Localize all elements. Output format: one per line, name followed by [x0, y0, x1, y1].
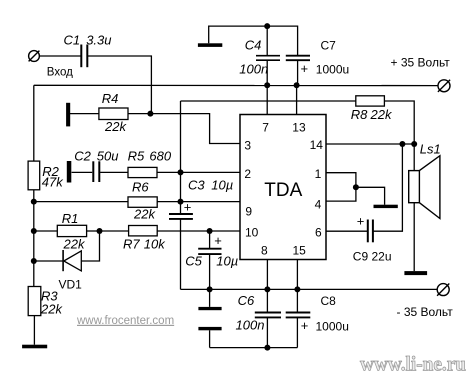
wire feedback vertical (R8 to pin2/pin9/C3) — [180, 101, 182, 214]
capacitor C8 — [286, 313, 311, 318]
capacitor C1 — [81, 45, 87, 68]
wire C7 bottom stem — [297, 61, 299, 86]
svg-text:4: 4 — [315, 197, 322, 211]
wire pin 6 to C9 — [326, 230, 367, 232]
wire left rail mid (R2 to R3) — [33, 190, 35, 287]
wire R8 right to pin14 node — [384, 101, 414, 144]
wire C3 bottom to mid rail corner — [180, 219, 182, 289]
svg-text:1: 1 — [315, 167, 322, 181]
wire C6 top stem — [266, 289, 268, 312]
resistor R7 — [129, 226, 158, 236]
wire rail to R6 — [34, 201, 128, 203]
ground bottom rail — [198, 327, 221, 330]
wire bar to C2 — [72, 171, 93, 173]
terminal: +35V connector — [438, 80, 450, 92]
node: pin2/feedback junction — [178, 169, 184, 175]
svg-text:10µ: 10µ — [216, 253, 238, 268]
node: C7/pin13 bus junction — [294, 82, 300, 88]
wire C8 top stem — [296, 289, 298, 312]
svg-text:- 35 Вольт: - 35 Вольт — [397, 305, 454, 319]
wire bottom ground stem — [209, 330, 211, 347]
svg-text:TDA: TDA — [264, 180, 302, 201]
svg-text:C9 22u: C9 22u — [353, 249, 392, 263]
svg-text:+: + — [214, 233, 222, 248]
svg-text:2: 2 — [244, 167, 251, 181]
node: rail/R1 junction — [31, 228, 37, 234]
terminal bar at C2 — [67, 161, 72, 183]
svg-text:Вход: Вход — [47, 67, 73, 79]
svg-text:8: 8 — [261, 243, 268, 257]
wire C4 top stem — [266, 26, 268, 55]
node: pin9/C3 junction — [178, 199, 184, 205]
wire pin 7 — [266, 85, 268, 114]
wire mid ground stem — [209, 289, 211, 307]
svg-text:3.3u: 3.3u — [86, 32, 111, 47]
svg-text:C7: C7 — [321, 39, 337, 53]
node: C9/pin14 junction — [399, 141, 405, 147]
svg-text:+: + — [184, 199, 192, 214]
wire pin 8 stem — [266, 260, 268, 290]
wire left rail top (bus to R2) — [33, 85, 35, 161]
node: pin8/C6 junction — [264, 286, 270, 292]
svg-text:R5: R5 — [128, 148, 145, 163]
capacitor C6 — [255, 313, 281, 318]
wire speaker bottom stem — [413, 203, 415, 271]
ground speaker — [404, 271, 427, 275]
wire rail to R1 — [34, 230, 58, 232]
svg-text:www.frocenter.com: www.frocenter.com — [76, 315, 174, 327]
svg-text:C8: C8 — [321, 294, 337, 308]
svg-text:22k: 22k — [63, 237, 86, 252]
wire bottom rail — [210, 347, 298, 349]
svg-text:R1: R1 — [62, 211, 79, 226]
svg-text:+: + — [301, 61, 309, 76]
svg-text:R4: R4 — [102, 91, 119, 106]
svg-text:680: 680 — [149, 148, 171, 163]
svg-text:22k: 22k — [370, 107, 393, 122]
svg-text:R6: R6 — [132, 180, 149, 195]
node: rail/VD1 junction — [31, 258, 37, 264]
wire pin 13 — [296, 85, 298, 114]
svg-text:3: 3 — [244, 139, 251, 153]
ground bottom-left — [22, 345, 47, 349]
node: R1/R7 junction — [97, 228, 103, 234]
resistor R2 — [28, 161, 40, 190]
wire speaker top stem — [413, 144, 415, 171]
svg-text:C2: C2 — [74, 148, 91, 163]
node: pin10/C5 junction — [207, 228, 213, 234]
speaker Ls1 — [409, 156, 440, 219]
terminal: input connector — [29, 51, 40, 62]
svg-text:R7: R7 — [123, 236, 140, 251]
svg-text:100n: 100n — [236, 317, 265, 332]
svg-text:14: 14 — [310, 138, 324, 152]
node: C4 top junction — [264, 23, 270, 29]
svg-text:C1: C1 — [64, 32, 81, 47]
wire C9 to pin14 node — [374, 144, 403, 231]
wire rail to VD1 — [34, 260, 63, 262]
wire R1 to node — [87, 230, 100, 232]
resistor R4 — [99, 108, 128, 120]
terminal bar at R4 — [66, 103, 70, 127]
svg-text:100n: 100n — [239, 62, 268, 77]
svg-text:50u: 50u — [97, 148, 119, 163]
wire left rail bottom (R3 to ground) — [33, 316, 35, 345]
wire pin 15 stem — [296, 260, 298, 290]
wire C1 to corner — [88, 56, 152, 114]
svg-text:Ls1: Ls1 — [420, 141, 441, 156]
ground top (C4) — [198, 43, 222, 47]
svg-text:22k: 22k — [104, 119, 127, 134]
svg-text:+: + — [301, 318, 309, 333]
svg-text:1000u: 1000u — [316, 62, 349, 76]
capacitor C4 — [256, 56, 280, 61]
svg-text:C4: C4 — [245, 38, 262, 53]
svg-text:VD1: VD1 — [59, 278, 83, 292]
svg-text:10: 10 — [245, 225, 259, 239]
svg-text:47k: 47k — [42, 174, 64, 189]
resistor R1 — [57, 225, 86, 236]
wire pin 1 / pin 4 loop — [326, 173, 356, 201]
wire mid rail (-35V) — [181, 288, 438, 290]
wire bar to R4 — [70, 113, 99, 115]
capacitor C5 — [198, 249, 221, 254]
wire R5 to pin 2 — [157, 171, 240, 173]
svg-text:+: + — [357, 214, 365, 229]
svg-text:9: 9 — [245, 204, 252, 218]
wire C8 bottom stem — [296, 318, 298, 348]
diode VD1 — [63, 250, 81, 271]
wire R8 left — [181, 100, 356, 102]
node: mid rail ground junction — [207, 286, 213, 292]
svg-text:10k: 10k — [144, 236, 166, 251]
wire node to pin 3 — [150, 114, 240, 144]
wire C5 bottom stem — [209, 254, 211, 289]
ground pins 1/4 — [374, 205, 398, 208]
ground mid rail — [198, 307, 221, 310]
svg-text:6: 6 — [315, 225, 322, 239]
capacitor C2 — [93, 161, 99, 182]
svg-text:7: 7 — [262, 120, 269, 134]
capacitor C3 — [169, 214, 193, 219]
terminal: -35V connector — [437, 284, 449, 296]
node: speaker/R8 junction — [411, 141, 417, 147]
svg-text:www.li-ne.ru: www.li-ne.ru — [360, 352, 466, 375]
node: pin15/C8 junction — [294, 286, 300, 292]
resistor R5 — [128, 167, 157, 177]
node: pin1/pin4 junction — [353, 184, 359, 190]
wire VD1 to node — [81, 231, 99, 261]
wire top ground link — [209, 26, 298, 55]
wire R4 to node — [128, 113, 150, 115]
node: rail/R6 junction — [31, 199, 37, 205]
resistor R6 — [128, 197, 157, 207]
wire input to C1 — [40, 55, 81, 57]
wire node to R7 — [100, 230, 129, 232]
svg-text:R8: R8 — [351, 107, 368, 122]
capacitor C7 — [286, 56, 310, 61]
svg-text:C6: C6 — [238, 293, 255, 308]
wire C6 bottom stem — [266, 318, 268, 348]
resistor R8 — [356, 96, 385, 106]
svg-text:1000u: 1000u — [316, 319, 349, 333]
svg-text:22k: 22k — [133, 207, 156, 222]
wire pin1-4 node to ground — [356, 187, 385, 204]
resistor R3 — [28, 287, 41, 316]
wire R6 to pin 9 — [157, 201, 240, 203]
node: C4/pin7 bus junction — [264, 82, 270, 88]
IC U1 TDA — [240, 115, 326, 260]
wire C2 to R5 — [100, 171, 128, 173]
capacitor C9 — [368, 220, 373, 243]
wire pin 14 to speaker node — [326, 143, 414, 145]
svg-text:13: 13 — [292, 120, 306, 134]
wire C5 top stem — [209, 231, 211, 249]
svg-text:C5: C5 — [185, 253, 202, 268]
svg-text:C3: C3 — [188, 177, 205, 192]
node: C6 bottom rail junction — [264, 345, 270, 351]
node: R4/C1 junction — [147, 111, 153, 117]
svg-text:+ 35 Вольт: + 35 Вольт — [391, 56, 451, 70]
svg-text:15: 15 — [293, 243, 307, 257]
wire +35V bus — [34, 84, 438, 86]
wire C4 bottom stem — [266, 61, 268, 86]
svg-text:22k: 22k — [40, 302, 63, 317]
svg-text:10µ: 10µ — [211, 177, 233, 192]
wire R7 to pin 10 — [157, 230, 240, 232]
